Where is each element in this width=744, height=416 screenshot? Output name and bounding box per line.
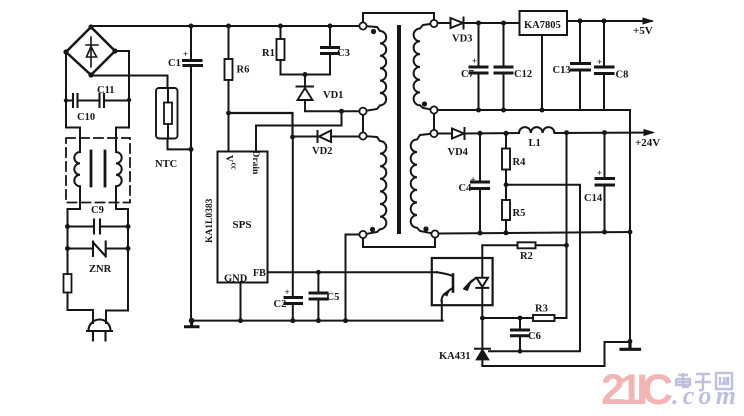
SECTION: WATERMARK [601,366,736,414]
capacitor C9 [68,220,129,234]
terminal node aux top [359,132,366,139]
wire KA7805 ground pin [541,35,543,110]
wire GND pin [240,283,242,321]
svg-text:+: + [471,175,476,185]
svg-text:C14: C14 [584,193,603,204]
transformer 5V secondary winding [414,24,434,111]
transformer aux winding [363,136,386,235]
svg-text:+: + [597,57,602,67]
junction dots C9 row [65,224,131,229]
junction dots C10 C11 row [64,98,131,103]
resistor R1 [280,26,282,39]
svg-text:C10: C10 [77,112,95,123]
svg-text:+: + [472,56,477,66]
choke core bars [91,151,105,186]
wire drain pin routing [256,111,342,151]
wire 5V output [567,20,652,22]
junction dots 5V ground rail [476,108,545,113]
wire right AC line to plug [106,248,128,323]
junction opto LED cathode R3 row [480,316,485,321]
capacitor C2 [285,298,302,304]
svg-text:Drain: Drain [250,151,260,175]
svg-text:C6: C6 [528,331,541,342]
diode VD2 [293,131,360,143]
transformer T1 bottom frame [363,234,435,247]
wire 5V ground rail [438,110,631,341]
svg-text:C4: C4 [459,183,473,194]
arrow +5V [643,18,653,24]
svg-text:KA7805: KA7805 [524,20,561,31]
IC U2 KA7805 [520,11,568,35]
terminal node sec24 bottom [431,230,438,237]
choke left winding [66,128,80,227]
bridge rectifier D (diamond) [66,27,115,75]
inductor L1 [519,127,652,133]
transformer T1 top frame [363,13,434,26]
optocoupler light arrow [465,279,476,289]
junction VD2 node [290,135,295,140]
resistor R6 [228,26,230,59]
svg-text:C9: C9 [91,205,104,216]
capacitor C1 [190,26,192,59]
svg-text:VD3: VD3 [452,34,472,45]
wire 24V ground rail [439,232,631,234]
junction dots 5V output [578,19,607,24]
terminal node sec24 top [430,130,437,137]
capacitor C6 [519,318,521,329]
main earth ground symbol [621,341,640,349]
junction R6 Vcc [226,111,231,116]
resistor R4 [505,133,507,148]
svg-text:C5: C5 [327,292,340,303]
terminal node aux bottom [359,231,366,238]
resistor R3 [482,317,566,319]
wire FB line to optocoupler [268,271,438,273]
NTC element [164,103,172,125]
svg-text:L1: L1 [529,138,541,149]
bridge vertex junctions [63,24,117,77]
wire NTC bottom to C1 line [168,139,192,150]
svg-text:C12: C12 [514,69,532,80]
capacitor C13 [579,21,581,63]
svg-text:+24V: +24V [635,137,660,149]
svg-text:C8: C8 [616,70,629,81]
polarity dot 5V secondary [422,101,427,106]
diode VD4 [438,128,520,139]
junction dots ZNR row [65,246,131,251]
wire aux winding return [346,235,360,321]
svg-text:+: + [183,49,188,59]
resistor R2 [482,245,566,258]
transformer T1 core [397,27,401,232]
terminal node sec5 top [430,20,437,27]
junction dots primary ground rail [189,318,348,324]
wire C9 to ZNR right [127,227,129,249]
wire Vcc cap line [292,137,294,296]
wire snubber bottom [281,74,331,76]
polarity dot aux [370,227,375,232]
optocoupler phototransistor [437,272,453,276]
junction R2 right [564,243,569,248]
svg-text:ZNR: ZNR [89,264,112,275]
wire top DC+ rail [91,26,363,27]
wire R6/Vcc feed [229,113,293,137]
capacitor C12 [503,23,505,66]
shunt regulator KA431 [475,318,490,349]
junction dots on top rail [189,24,333,29]
wire opto emitter to primary ground [441,301,443,321]
svg-text:C11: C11 [97,85,115,96]
svg-text:+: + [597,168,602,178]
wire KA431 anode to ground [482,342,630,366]
NTC box [156,88,178,139]
polarity dot 24V secondary [423,226,428,231]
junction C5 FB [316,270,321,275]
wire primary to aux series link [362,111,364,136]
svg-text:R5: R5 [513,208,526,219]
arrow +24V [644,130,654,136]
svg-text:R6: R6 [237,65,250,76]
svg-text:KA431: KA431 [439,351,471,362]
junction NTC/C1 [189,147,194,152]
svg-text:SPS: SPS [233,219,252,231]
svg-text:FB: FB [253,268,266,279]
polarity dot primary [371,29,376,34]
terminal node sec5 bottom [430,106,437,113]
wire bridge bottom vertex (DC-) to NTC [91,76,168,89]
svg-text:+: + [285,287,290,297]
svg-text:VD1: VD1 [323,90,343,101]
IC U1 KA1L0383 SPS box [218,152,268,283]
svg-text:C13: C13 [553,65,571,76]
svg-text:C2: C2 [274,299,287,310]
wire primary ground rail [192,320,443,322]
svg-text:cc: cc [230,163,239,171]
wire bridge left vertex down [65,52,67,128]
capacitor C7 [478,23,480,66]
optocoupler LED [476,258,488,318]
junction dots 24V ground rail [478,230,633,236]
junction dots 24V output [564,130,607,135]
wire C9 to ZNR left [67,227,69,249]
svg-text:NTC: NTC [155,159,177,170]
svg-text:KA1L0383: KA1L0383 [205,198,215,243]
wire VD1 to primary bottom [305,110,360,112]
junction dots 5V input [476,21,506,26]
zener diode VD1 [297,75,314,112]
svg-text:C7: C7 [461,69,474,80]
svg-text:GND: GND [224,274,248,285]
fuse [67,248,69,274]
capacitor C11 [100,94,130,107]
capacitor C4 [479,133,481,181]
svg-text:VD4: VD4 [448,147,469,158]
junction C6 top [518,316,523,321]
capacitor C3 [329,26,331,46]
terminal node primary top [359,22,366,29]
capacitor C10 [66,94,100,107]
svg-text:21IC: 21IC [601,366,673,414]
transformer primary winding [363,26,386,111]
wire sec5 to sec24 series link [433,110,435,134]
svg-text:R1: R1 [262,48,275,59]
svg-text:VD2: VD2 [312,146,332,157]
junction C6 bottom [518,349,523,354]
junction dots 24V input [478,131,509,136]
capacitor C8 [603,21,605,66]
wire +24V feed to R2 R3 [566,133,568,318]
wire divider tap to KA431 ref [489,185,580,352]
svg-text:C1: C1 [168,58,181,69]
resistor R5 [502,200,510,220]
varistor ZNR [68,242,129,257]
choke right winding [116,128,129,227]
junction divider tap [504,182,509,187]
transformer 24V secondary winding [411,134,435,235]
wire bridge right vertex to AC line [115,51,129,128]
svg-text:+5V: +5V [633,25,653,37]
capacitor C5 [317,272,319,292]
junction VD1 top [303,72,308,77]
primary earth ground symbol [186,321,199,327]
junction drain node [339,109,344,114]
optocoupler U3 box [432,258,493,305]
AC plug [87,320,112,341]
terminal node primary bottom [359,108,366,115]
svg-text:C3: C3 [337,48,350,59]
common-mode choke dashed box [66,138,130,203]
svg-text:R3: R3 [535,304,548,315]
svg-text:R4: R4 [513,157,527,168]
junction main ground [628,339,633,344]
capacitor C14 [604,133,606,178]
diode VD3 [438,18,520,29]
svg-text:R2: R2 [520,251,533,262]
